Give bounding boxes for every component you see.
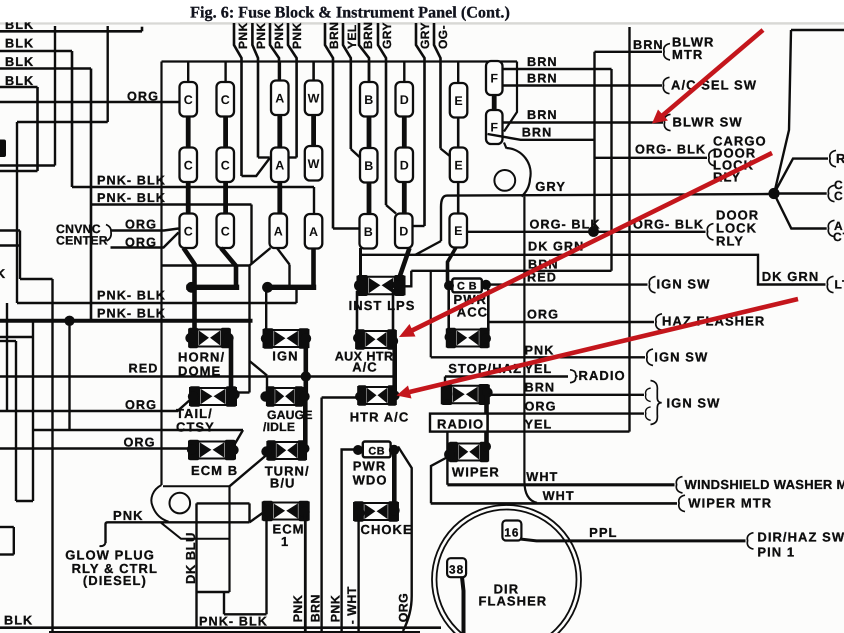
junction dot INST LPS left xyxy=(354,280,366,292)
svg-text:BRN: BRN xyxy=(525,381,556,395)
fuse block right border lower xyxy=(523,197,525,482)
wire YEL from top at x343 xyxy=(343,23,351,149)
fuse B3 (B) xyxy=(360,214,378,249)
connector F column xyxy=(492,95,497,110)
fuse block left border xyxy=(160,62,162,486)
wire y265 line xyxy=(162,264,250,266)
svg-text:PNK- BLK: PNK- BLK xyxy=(97,289,166,303)
svg-text:RLY: RLY xyxy=(716,234,744,249)
fuse F2 xyxy=(486,110,503,144)
wire CB WDO right diagonal to bottom ORG xyxy=(398,447,412,632)
wire bus1 drop to HORN/DOME xyxy=(192,287,197,332)
svg-text:CT: CT xyxy=(833,230,844,244)
svg-text:CENTER: CENTER xyxy=(56,234,108,248)
wire PNK from top at x288 xyxy=(288,23,297,158)
svg-text:ORG- BLK: ORG- BLK xyxy=(633,218,704,232)
fuse C3 (C) xyxy=(180,148,198,183)
wire vertical x630 xyxy=(628,27,630,432)
junction dot CB WDO right xyxy=(389,445,399,455)
fuse C2 (C) xyxy=(217,82,235,117)
svg-text:ORG: ORG xyxy=(525,400,557,414)
brace DIR/HAZ SW xyxy=(747,533,753,549)
svg-text:PNK- BLK: PNK- BLK xyxy=(97,191,166,205)
mounting hole circle right xyxy=(494,170,515,191)
brace A/C SEL SW xyxy=(663,77,669,93)
wire C5 drop to bus1 xyxy=(184,248,195,264)
wire fan to CL CL xyxy=(774,192,827,194)
wire stub left y122 xyxy=(17,121,108,123)
wire YEL lower to x630 xyxy=(488,430,630,432)
wire YEL to RADIO brace xyxy=(445,375,568,377)
red arrow to HTR A/C xyxy=(410,299,799,392)
svg-text:WIPER: WIPER xyxy=(452,465,500,480)
wire IGN right thick to GAUGE right xyxy=(303,340,308,394)
wire left y337 x33 xyxy=(0,336,33,338)
wire x249 riser xyxy=(248,266,250,393)
svg-text:RADIO: RADIO xyxy=(437,416,484,431)
RADIO box xyxy=(430,414,488,432)
wire BRN from top at x359 xyxy=(359,23,369,82)
connector ECM 1 xyxy=(262,501,309,521)
wire fan to A CT xyxy=(774,194,827,229)
fuse A4 (A) xyxy=(305,214,323,249)
connector E column xyxy=(457,62,459,84)
wire ECM1 return left xyxy=(265,517,267,614)
wire left y245 xyxy=(0,244,21,246)
fuse D3 (D) xyxy=(395,214,413,249)
fuse block bottom tab outline xyxy=(151,485,168,522)
wire BRN4 F2 diagonal xyxy=(488,134,595,140)
svg-text:LT: LT xyxy=(835,278,844,292)
wire GAUGE right thick to TURN right xyxy=(303,399,308,448)
svg-text:Fig. 6: Fuse Block & Instrumen: Fig. 6: Fuse Block & Instrument Panel (C… xyxy=(190,4,510,22)
connector D column xyxy=(403,62,405,83)
wire BRN from top at x325 xyxy=(325,23,333,229)
wire PPL to DIR/HAZ SW xyxy=(520,539,746,541)
svg-text:INST LPS: INST LPS xyxy=(349,298,416,313)
fuse B2 (B) xyxy=(360,148,378,183)
svg-text:PNK: PNK xyxy=(113,508,144,523)
wire PNK from top at x252.4 xyxy=(252,23,258,158)
wire HTR left to BRN drop xyxy=(322,396,359,398)
brace CARGO DOOR LOCK RLY xyxy=(709,150,715,166)
brace LT xyxy=(827,276,833,292)
fuse block right border arc xyxy=(507,148,531,197)
svg-text:B: B xyxy=(364,225,373,239)
wire INST LPS right to AUX HTR right xyxy=(392,289,395,336)
svg-text:C: C xyxy=(184,158,193,172)
fuse D2 (D) xyxy=(396,148,414,183)
svg-text:WINDSHIELD WASHER M: WINDSHIELD WASHER M xyxy=(685,477,844,492)
connector C1-C3-C5 column xyxy=(187,62,189,83)
svg-text:WHT: WHT xyxy=(526,470,558,484)
svg-text:BRN: BRN xyxy=(527,55,558,69)
fuse block top border xyxy=(162,60,518,62)
wire DK BLU vertical xyxy=(195,503,197,627)
wire OG- diagonal to fuse E2 xyxy=(441,149,452,158)
svg-text:- WHT: - WHT xyxy=(345,586,359,624)
wire A3 drop to bus2 xyxy=(277,248,290,265)
wire ORG to HAZ FLASHER xyxy=(488,321,654,323)
DIR FLASHER inner circle xyxy=(437,510,577,633)
svg-text:1: 1 xyxy=(281,534,289,549)
wire ORG-BLK to CARGO DOOR LOCK RLY xyxy=(595,157,708,159)
wire TURN left diagonal to tab xyxy=(230,455,267,486)
wire GRY1 diagonal to fuse D3 xyxy=(386,205,396,214)
glow plug wire end hook xyxy=(100,543,106,546)
svg-text:A: A xyxy=(309,225,318,239)
brace DOOR LOCK RLY xyxy=(707,224,713,240)
fuse W2 (W) xyxy=(305,146,323,181)
svg-text:BLWR SW: BLWR SW xyxy=(673,115,743,130)
svg-text:PNK: PNK xyxy=(329,595,343,623)
brace IGN SW group xyxy=(651,381,662,425)
svg-text:C: C xyxy=(221,158,230,172)
wire WHT to WIPER MTR xyxy=(431,502,677,505)
svg-text:CL: CL xyxy=(834,189,844,203)
connector TURN/B/U xyxy=(267,440,307,460)
wire diag to GAUGE feed xyxy=(250,361,268,376)
connector W column xyxy=(312,62,315,81)
junction dot bus2 xyxy=(262,282,273,293)
svg-text:ORG- BLK: ORG- BLK xyxy=(635,143,706,157)
svg-text:PNK: PNK xyxy=(236,22,250,49)
fuse block right border bottom curve xyxy=(524,481,537,503)
svg-text:YEL: YEL xyxy=(525,418,553,432)
bus1 thick xyxy=(189,285,237,290)
svg-text:GRY: GRY xyxy=(380,22,394,49)
svg-text:MTR: MTR xyxy=(672,47,703,62)
svg-text:DOME: DOME xyxy=(178,364,221,379)
svg-text:(DIESEL): (DIESEL) xyxy=(83,573,147,588)
svg-text:W: W xyxy=(308,91,320,105)
svg-text:BRN: BRN xyxy=(361,22,375,49)
fuse D1 (D) xyxy=(396,82,414,117)
svg-text:E: E xyxy=(454,224,462,238)
svg-text:F: F xyxy=(490,72,498,86)
wire ECM1 right to bottom PNK xyxy=(304,514,307,631)
svg-text:DIR/HAZ SW: DIR/HAZ SW xyxy=(757,530,844,545)
svg-text:CHOKE: CHOKE xyxy=(361,522,413,537)
svg-text:D: D xyxy=(400,93,409,107)
brace BLWR MTR xyxy=(664,44,670,60)
red arrow to AUX HTR A/C xyxy=(412,153,772,331)
connector ECM B xyxy=(189,440,236,460)
svg-text:C B: C B xyxy=(457,281,477,293)
connector WIPER xyxy=(449,442,489,462)
wire BRN to IGN SW group xyxy=(488,394,644,396)
wire jog to TAIL right xyxy=(237,391,250,393)
connector GAUGE/IDLE xyxy=(266,386,303,406)
svg-text:C: C xyxy=(221,224,230,238)
svg-text:PNK: PNK xyxy=(272,22,286,49)
wire BRN2 F1 to A/C SEL SW xyxy=(503,84,663,86)
svg-text:BRN: BRN xyxy=(527,72,558,86)
wire WHT to WINDSHIELD WASHER MTR xyxy=(447,483,674,486)
fuse F1 xyxy=(486,61,503,95)
wire left jog y527 xyxy=(0,526,14,528)
svg-text:WIPER MTR: WIPER MTR xyxy=(688,495,772,510)
svg-text:B: B xyxy=(364,93,373,107)
connector A column xyxy=(278,62,281,81)
svg-text:BLK: BLK xyxy=(5,55,34,69)
junction dot RED-IGN xyxy=(301,371,311,381)
junction dot INST LPS right xyxy=(393,280,403,290)
fuse C6 (C) xyxy=(217,214,235,249)
connector B column xyxy=(368,62,371,83)
DIR FLASHER outer circle xyxy=(432,505,581,633)
box outline PWR ACC left border xyxy=(430,271,432,358)
wire GRY from top at x416 xyxy=(416,23,425,226)
svg-text:R: R xyxy=(836,151,844,166)
svg-text:DK BLU: DK BLU xyxy=(183,532,198,584)
wire ORG to IGN SW group xyxy=(488,412,645,414)
wire vertical x594 xyxy=(593,52,595,231)
svg-text:A/C: A/C xyxy=(352,360,378,375)
CB box PWR ACC xyxy=(452,279,482,293)
wire C6 drop to bus1 xyxy=(221,248,236,285)
CB box PWR WDO xyxy=(363,442,391,458)
fuse A1 (A) xyxy=(271,81,289,116)
connector PWR ACC output xyxy=(446,328,489,348)
fuse C1 (C) xyxy=(180,82,198,117)
junction dot CB ACC right xyxy=(481,280,491,290)
svg-text:CTSY: CTSY xyxy=(176,420,215,435)
svg-text:A: A xyxy=(275,158,284,172)
svg-text:B: B xyxy=(364,159,373,173)
wire bus2 drop to IGN xyxy=(265,287,267,334)
fuse E1 xyxy=(450,83,468,118)
fuse C4 (C) xyxy=(217,148,235,183)
svg-text:ORG: ORG xyxy=(397,593,411,623)
svg-text:BLK: BLK xyxy=(5,36,34,50)
svg-text:C: C xyxy=(184,224,193,238)
fuse E2 xyxy=(450,148,468,183)
svg-text:RADIO: RADIO xyxy=(579,368,626,383)
wire D3 thick diagonal to INST LPS right xyxy=(399,248,410,280)
connector HTR A/C xyxy=(358,385,397,405)
svg-text:ECM B: ECM B xyxy=(191,463,238,478)
svg-text:B/U: B/U xyxy=(270,476,296,491)
svg-text:A: A xyxy=(274,224,283,238)
svg-text:C: C xyxy=(184,93,193,107)
svg-text:DK GRN: DK GRN xyxy=(762,269,820,284)
fuse E3 xyxy=(450,214,468,248)
wire ORG-BLK E3 to junction xyxy=(466,231,594,233)
svg-text:E: E xyxy=(454,158,462,172)
wire ORG-BLK to DOOR LOCK RLY xyxy=(594,231,706,233)
pin box 16 xyxy=(502,521,521,541)
wire BLWR MTR xyxy=(595,51,663,53)
svg-text:PIN 1: PIN 1 xyxy=(757,545,795,560)
junction dot GRY fan xyxy=(768,188,779,199)
connector HORN/DOME xyxy=(189,328,231,348)
wire left y230 xyxy=(0,229,20,231)
svg-text:IGN SW: IGN SW xyxy=(667,396,721,411)
fuse block right border upper xyxy=(504,62,517,132)
bus2 thick xyxy=(266,285,314,290)
brace BLWR SW xyxy=(664,114,670,130)
svg-text:A: A xyxy=(275,91,284,105)
svg-text:PNK: PNK xyxy=(525,344,555,358)
svg-text:IGN SW: IGN SW xyxy=(657,277,711,292)
svg-text:CB: CB xyxy=(368,445,385,457)
bottom border line xyxy=(0,626,441,629)
svg-text:E: E xyxy=(454,94,462,108)
svg-text:WHT: WHT xyxy=(543,489,575,503)
wire INST LPS left to AUX HTR xyxy=(356,291,359,334)
wire PNK2 jog to fuse A2 xyxy=(258,156,270,158)
svg-text:OG-: OG- xyxy=(436,25,450,49)
wire GRY long line xyxy=(441,194,769,207)
connector CHOKE xyxy=(354,501,399,521)
fuse block border hook xyxy=(504,143,507,149)
svg-text:K: K xyxy=(0,267,6,281)
junction dot bus1 xyxy=(186,282,197,293)
brace RADIO xyxy=(570,370,578,383)
wire STOP/HAZ right thick to WIPER xyxy=(484,395,489,449)
wire AUX right thick to HTR right xyxy=(392,342,397,394)
wire left y341 x16 xyxy=(0,340,16,342)
svg-text:PNK: PNK xyxy=(290,22,304,49)
wire CB WDO right thick to CHOKE xyxy=(392,452,397,508)
CNVNC brace xyxy=(106,225,111,242)
wire stub left y165 xyxy=(0,164,55,166)
wire CB WDO left to bottom PNK xyxy=(342,450,358,632)
svg-text:BRN: BRN xyxy=(327,22,341,49)
svg-text:BRN: BRN xyxy=(309,594,323,622)
wire B3 drop to INST LPS left xyxy=(359,248,362,281)
wire CB ACC left riser xyxy=(447,290,450,330)
fuse W1 (W) xyxy=(305,81,323,116)
bottom page edge line xyxy=(49,631,420,633)
svg-text:IGN SW: IGN SW xyxy=(654,350,708,365)
wire BRN3 F2 to BLWR SW xyxy=(503,121,664,123)
wire left x7 xyxy=(6,303,8,411)
wire GRY2 into fuse D3 right xyxy=(411,225,425,227)
svg-text:PNK: PNK xyxy=(291,595,305,623)
fuse A3 (A) xyxy=(270,214,288,249)
wire GRY from top at x378 xyxy=(378,23,386,205)
wire from pin 38 xyxy=(462,577,464,633)
scan edge band xyxy=(0,22,844,24)
svg-text:W: W xyxy=(308,157,320,171)
wire A3 diagonal to y265 line xyxy=(250,248,271,266)
junction dot ORG-BLK xyxy=(588,226,599,237)
svg-text:/IDLE: /IDLE xyxy=(263,420,295,434)
wire HORN right to TAIL right thick xyxy=(229,340,234,390)
svg-text:PPL: PPL xyxy=(589,525,617,540)
red arrow to BLWR SW xyxy=(663,30,764,116)
svg-text:PWR: PWR xyxy=(353,459,386,474)
connector STOP/HAZ xyxy=(441,384,489,405)
svg-text:WDO: WDO xyxy=(353,473,388,488)
svg-text:C: C xyxy=(221,93,230,107)
svg-text:YEL: YEL xyxy=(345,24,359,49)
svg-text:16: 16 xyxy=(504,525,519,539)
junction dot PNK-BLK 4 xyxy=(64,316,74,326)
pin box 38 xyxy=(447,558,466,577)
connector INST LPS xyxy=(357,275,405,296)
wire harness edge top xyxy=(791,29,844,31)
fuse B1 (B) xyxy=(360,82,378,117)
mounting hole circle bottom-left xyxy=(170,493,191,514)
wire STOP/HAZ left riser to YEL xyxy=(444,377,446,391)
svg-text:GRY: GRY xyxy=(418,22,432,49)
wire diag to ECM1 left xyxy=(250,511,267,523)
wire OG- from top at x434 xyxy=(434,23,441,149)
connector C2-C4-C6 column xyxy=(224,62,226,83)
junction dot CB WDO left xyxy=(353,445,363,455)
wire left y279 to x52 xyxy=(20,278,53,280)
wire CHOKE left to bottom WHT xyxy=(357,514,359,631)
svg-text:38: 38 xyxy=(449,563,464,577)
fuse A2 (A) xyxy=(271,148,289,183)
wire PNK from top at x234 xyxy=(234,23,242,176)
junction dot CB ACC left xyxy=(444,281,454,291)
fuse C5 (C) xyxy=(180,214,198,249)
wire PNK1 jog to fuse A2 xyxy=(242,158,270,176)
connector IGN xyxy=(263,328,309,348)
wire BRN1 F1 to vertical xyxy=(503,68,612,70)
svg-text:IGN: IGN xyxy=(272,349,298,364)
wire A4 thick drop to bus2 xyxy=(311,248,316,285)
svg-text:ORG: ORG xyxy=(527,308,559,322)
wire DK BLU horizontal xyxy=(197,502,250,504)
svg-text:PNK- BLK: PNK- BLK xyxy=(97,307,166,321)
wire CB ACC right riser xyxy=(487,289,490,331)
wire INST LPS right to BRN line xyxy=(400,271,411,287)
connector TAIL/CTSY xyxy=(190,386,237,406)
wire BRN1 jog to fuse B3 left xyxy=(333,227,360,229)
svg-text:A/C SEL SW: A/C SEL SW xyxy=(671,78,757,93)
connector blob left edge xyxy=(0,140,6,158)
svg-text:D: D xyxy=(400,158,409,172)
svg-text:HTR A/C: HTR A/C xyxy=(350,410,410,425)
svg-text:BRN: BRN xyxy=(633,38,664,52)
svg-text:FLASHER: FLASHER xyxy=(479,594,548,609)
svg-text:BLK: BLK xyxy=(4,614,33,628)
wire GRY left drop xyxy=(440,207,442,241)
wire PNK4 jog to fuse A2 right xyxy=(286,156,297,158)
wire from dot down to ECM B row xyxy=(68,321,70,430)
wire PNK to IGN SW 2 xyxy=(431,356,645,358)
wire BRN line INST LPS to x611 xyxy=(411,270,611,272)
wire WIPER left drop xyxy=(431,456,450,503)
wire RED to IGN SW xyxy=(486,283,648,285)
wire E3 to CB PWR ACC xyxy=(448,248,457,283)
svg-text:BRN: BRN xyxy=(522,126,553,140)
wire WHT riser xyxy=(446,432,448,485)
wire fan to R xyxy=(774,159,828,194)
svg-text:PNK- BLK: PNK- BLK xyxy=(97,174,166,188)
wire YEL diagonal to fuse B2 xyxy=(351,149,360,157)
svg-text:GRY: GRY xyxy=(535,179,566,194)
svg-text:PNK: PNK xyxy=(254,22,268,49)
wire vertical x611 xyxy=(610,69,612,271)
wire PNK from top at x270 xyxy=(270,23,279,82)
svg-text:RED: RED xyxy=(129,362,159,376)
connector AUX HTR A/C xyxy=(356,329,397,349)
svg-text:F: F xyxy=(490,121,498,135)
svg-text:HORN/: HORN/ xyxy=(178,350,225,365)
wire x249 drop xyxy=(248,503,250,522)
svg-text:BRN: BRN xyxy=(527,108,558,122)
svg-text:D: D xyxy=(399,224,408,238)
